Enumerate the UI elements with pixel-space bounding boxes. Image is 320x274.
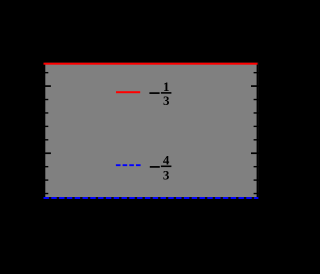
svg-text:3: 3 bbox=[163, 168, 170, 183]
right major ticks bbox=[251, 85, 258, 154]
red line y = -1/3 along top edge bbox=[44, 63, 258, 65]
legend label -4/3: minus sign bbox=[150, 166, 160, 168]
bottom spine bbox=[44, 197, 259, 199]
blue dashed line y = -4/3 along bottom edge bbox=[44, 197, 259, 199]
svg-text:4: 4 bbox=[163, 152, 170, 167]
plot background (axes facecolor) bbox=[44, 63, 259, 199]
left major ticks bbox=[44, 85, 51, 154]
legend handle: red solid line sample bbox=[116, 91, 140, 93]
svg-text:3: 3 bbox=[163, 93, 170, 108]
legend label -1/3: fraction bar bbox=[161, 92, 172, 94]
left spine bbox=[44, 63, 46, 199]
legend label -4/3: fraction bar bbox=[161, 166, 172, 168]
svg-text:1: 1 bbox=[163, 79, 170, 94]
legend handle: blue dashed line sample bbox=[116, 164, 141, 166]
left minor ticks bbox=[44, 72, 49, 194]
legend label -1/3: minus sign bbox=[149, 92, 159, 94]
right minor ticks bbox=[254, 72, 259, 194]
right spine bbox=[257, 63, 259, 199]
